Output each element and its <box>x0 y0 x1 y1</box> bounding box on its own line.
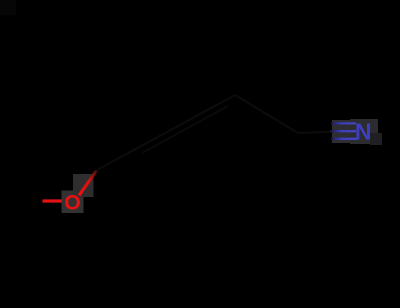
wire: apex down to nitrile carbon <box>235 95 298 133</box>
triple bond C#N line middle <box>330 130 356 132</box>
node O bond-midpoint box <box>73 174 94 197</box>
node N shadow box <box>370 133 382 145</box>
triple bond C#N line top <box>331 122 356 124</box>
node N triple-bond box <box>332 120 351 143</box>
triple bond C#N line bottom <box>331 138 357 140</box>
svg-text:N: N <box>355 119 372 145</box>
wire: bond into nitrile <box>298 132 336 134</box>
svg-text:O: O <box>64 191 80 214</box>
node N label box <box>350 119 378 144</box>
wire: double bond inner line <box>142 106 228 153</box>
node O label box <box>62 191 84 214</box>
bond O-C1 (fading red) <box>79 171 97 196</box>
wire: chain bond C1 to apex (very dark skeleton) <box>97 95 235 170</box>
top-left watermark square <box>0 0 16 15</box>
bond O-CH3 (methyl) <box>43 199 62 202</box>
